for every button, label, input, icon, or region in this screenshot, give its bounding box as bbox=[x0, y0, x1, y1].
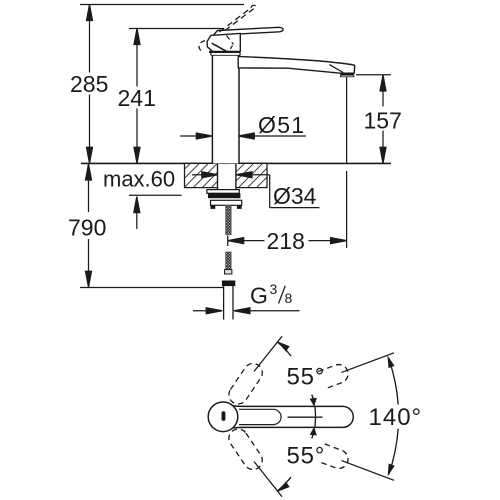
svg-text:218: 218 bbox=[267, 228, 305, 254]
spout (side view) bbox=[238, 56, 355, 76]
base flange bbox=[211, 53, 240, 55]
dashed spout tip cap lower bbox=[318, 444, 350, 471]
svg-text:140°: 140° bbox=[369, 404, 423, 431]
dashed rotated spout stub lower bbox=[225, 425, 266, 473]
hose hex nut bbox=[222, 281, 235, 287]
dimension 241 bbox=[134, 29, 140, 164]
extension line upper stub axis bbox=[254, 336, 282, 371]
bracket foot left bbox=[211, 205, 216, 209]
svg-text:241: 241 bbox=[118, 85, 156, 111]
extension line 140 upper bbox=[342, 353, 395, 373]
mounting washer bbox=[207, 190, 239, 194]
dimension 285 bbox=[87, 5, 93, 164]
svg-text:8: 8 bbox=[285, 290, 293, 306]
wire: deck top surface line bbox=[81, 162, 391, 164]
svg-text:3: 3 bbox=[270, 281, 278, 297]
handle front edge line bbox=[212, 43, 228, 52]
55 degree arc upper bbox=[277, 342, 316, 417]
dimension G 3/8 bbox=[193, 308, 300, 314]
55 degree arc lower bbox=[277, 417, 316, 491]
faucet shank through deck bbox=[218, 163, 236, 189]
handle lever (solid) bbox=[213, 27, 283, 36]
dimension 790 bbox=[86, 164, 92, 287]
aerator at spout tip bbox=[340, 73, 354, 75]
wire: extension line top for 241 bbox=[129, 28, 224, 30]
wire: extension line from spout outlet down bbox=[346, 77, 348, 163]
top-view spout (solid) bbox=[233, 406, 353, 428]
dashed rotated spout stub upper bbox=[225, 360, 266, 408]
faucet body column bbox=[212, 54, 239, 163]
top-view base circle bbox=[208, 402, 238, 432]
handle mark in circle bbox=[222, 411, 226, 421]
wire: extension line top for 285 bbox=[80, 4, 244, 6]
dimension diameter 34 bbox=[192, 172, 320, 208]
threaded rod lower bbox=[226, 252, 231, 270]
handle body bbox=[207, 33, 240, 51]
svg-text:55°: 55° bbox=[287, 364, 326, 391]
svg-text:790: 790 bbox=[68, 215, 106, 241]
140 degree arc bbox=[389, 359, 399, 475]
dashed handle arc (left) bbox=[199, 41, 205, 52]
svg-text:285: 285 bbox=[70, 71, 108, 97]
svg-text:Ø51: Ø51 bbox=[258, 112, 305, 138]
svg-text:157: 157 bbox=[364, 108, 402, 134]
threaded rod upper bbox=[226, 205, 231, 234]
svg-text:Ø34: Ø34 bbox=[273, 183, 317, 209]
spout axis line bbox=[288, 416, 323, 418]
inner spout section cap bbox=[239, 409, 281, 424]
dashed raised lever bbox=[220, 5, 257, 32]
deck cross-section with hatch bbox=[185, 163, 268, 187]
extension line lower stub axis bbox=[254, 462, 282, 497]
svg-text:55°: 55° bbox=[287, 443, 326, 470]
dimension diameter 51 bbox=[180, 133, 306, 139]
dashed spout tip cap upper bbox=[318, 362, 350, 389]
bracket foot right bbox=[237, 205, 242, 209]
rod collar bbox=[225, 270, 232, 274]
dashed lever line inside body bbox=[227, 36, 234, 45]
svg-text:G: G bbox=[250, 283, 268, 309]
wire: extension line bottom for 790 (hose end level) bbox=[80, 287, 223, 289]
dimension 218 bbox=[228, 236, 347, 247]
svg-text:max.60: max.60 bbox=[103, 167, 175, 192]
body base heavy line bbox=[209, 51, 240, 53]
dimension 157 bbox=[356, 74, 391, 76]
mounting bracket bar bbox=[211, 200, 242, 205]
flexible hose bbox=[224, 286, 233, 319]
extension line 140 lower bbox=[342, 461, 395, 481]
mounting seal dark band bbox=[208, 193, 240, 198]
